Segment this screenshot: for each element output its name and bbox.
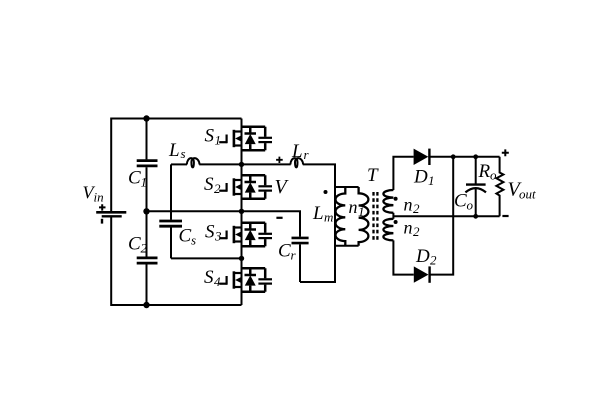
capacitor Co bottom lead bbox=[475, 189, 477, 217]
wire: Lr to primary loop top bbox=[303, 164, 335, 187]
battery minus tick bbox=[101, 219, 103, 224]
capacitor C2 bbox=[146, 211, 148, 256]
label Co bbox=[454, 191, 474, 213]
transformer core dashed lines bbox=[372, 192, 374, 241]
label S3 bbox=[205, 222, 222, 244]
label V bridge voltage bbox=[275, 176, 290, 198]
wire: left rail below battery to bottom rail bbox=[111, 217, 241, 305]
svg-text:L: L bbox=[312, 203, 324, 224]
transformer secondary winding n2 bottom bbox=[383, 219, 393, 241]
svg-text:n: n bbox=[349, 197, 358, 217]
svg-text:2: 2 bbox=[413, 224, 420, 239]
node: S1-S2 midpoint junction bbox=[239, 162, 244, 167]
svg-text:C: C bbox=[128, 234, 141, 255]
capacitor Co straight plate bbox=[466, 183, 486, 185]
svg-text:n: n bbox=[404, 195, 413, 215]
svg-text:S: S bbox=[204, 174, 214, 195]
svg-text:s: s bbox=[191, 233, 196, 248]
transistor S3 bbox=[219, 223, 272, 247]
node: D1-D2 cathode junction bbox=[451, 154, 456, 159]
label C1 bbox=[128, 168, 147, 190]
capacitor Co curved plate bbox=[465, 188, 486, 192]
wire: Cr bottom to primary loop bbox=[300, 246, 335, 282]
capacitor Co top lead bbox=[475, 157, 477, 184]
label T bbox=[367, 165, 379, 186]
svg-text:C: C bbox=[454, 191, 467, 212]
svg-text:3: 3 bbox=[214, 229, 222, 244]
transistor S4 bbox=[219, 268, 272, 292]
wire: middle rail from C1-C2 midpoint to S2-S3 midpoint bbox=[147, 210, 242, 212]
svg-text:s: s bbox=[181, 146, 186, 161]
svg-text:2: 2 bbox=[141, 241, 148, 256]
svg-text:C: C bbox=[128, 168, 141, 189]
node: C1-C2 midpoint junction bbox=[143, 208, 149, 214]
output plus sign bbox=[502, 149, 509, 156]
wire: Cs bottom to S3-S4 junction bbox=[171, 257, 242, 259]
label Vout bbox=[508, 179, 537, 202]
svg-text:V: V bbox=[275, 176, 290, 198]
label D2 bbox=[415, 246, 437, 268]
label n1 bbox=[349, 197, 365, 219]
wire: S1-S2 junction to Lr bbox=[242, 163, 291, 165]
svg-text:L: L bbox=[168, 140, 180, 161]
node: Co top junction bbox=[473, 154, 478, 159]
label n2 bottom bbox=[404, 218, 421, 240]
svg-text:4: 4 bbox=[214, 274, 221, 289]
svg-text:D: D bbox=[413, 167, 428, 188]
wire: D2 cathode up to plus rail bbox=[429, 157, 454, 275]
svg-text:1: 1 bbox=[428, 173, 435, 188]
label D1 bbox=[413, 167, 435, 189]
svg-text:S: S bbox=[205, 222, 215, 243]
wire: S2-S3 junction to Cr bbox=[242, 211, 301, 236]
wire: primary top stub bbox=[335, 186, 359, 188]
label S4 bbox=[204, 267, 221, 289]
svg-text:L: L bbox=[291, 141, 303, 162]
node: primary dot polarity bbox=[324, 190, 328, 194]
wire: primary bottom stub bbox=[335, 245, 359, 247]
svg-text:1: 1 bbox=[141, 175, 148, 190]
transformer secondary winding n2 top bbox=[383, 190, 393, 213]
svg-text:D: D bbox=[415, 246, 430, 267]
svg-text:R: R bbox=[478, 161, 491, 182]
diode D2 bbox=[414, 266, 429, 282]
inductor Ls coil bbox=[187, 158, 200, 167]
node: Co bottom junction bbox=[473, 214, 478, 219]
inductor Lm coil bbox=[335, 187, 345, 246]
label Cr bbox=[278, 241, 297, 263]
transistor S2 bbox=[219, 175, 272, 199]
svg-text:2: 2 bbox=[413, 201, 420, 216]
label Cs bbox=[179, 226, 197, 248]
svg-text:2: 2 bbox=[430, 253, 437, 268]
wire: Ls branch horizontal bbox=[171, 163, 187, 165]
capacitor Cr bbox=[292, 237, 309, 240]
svg-text:T: T bbox=[367, 165, 379, 186]
svg-text:C: C bbox=[278, 241, 291, 262]
wire: Ls coil to S1-S2 junction bbox=[199, 163, 241, 165]
label Ro bbox=[478, 161, 498, 183]
svg-text:o: o bbox=[490, 168, 497, 183]
svg-text:1: 1 bbox=[358, 204, 365, 219]
node: secondary bottom winding dot bbox=[394, 220, 398, 224]
svg-text:m: m bbox=[324, 210, 333, 225]
output minus sign bbox=[502, 215, 508, 217]
capacitor Cs bbox=[159, 220, 182, 223]
node: top rail / C1 junction bbox=[143, 115, 149, 121]
svg-text:o: o bbox=[467, 198, 474, 213]
svg-text:in: in bbox=[94, 190, 104, 205]
label Ls bbox=[168, 140, 186, 161]
svg-text:S: S bbox=[204, 267, 214, 288]
plus sign of bridge voltage V bbox=[276, 157, 283, 163]
battery plus sign bbox=[99, 204, 106, 210]
svg-text:out: out bbox=[519, 187, 536, 202]
wire: Ls riser down to Cs bbox=[170, 164, 172, 219]
secondary rail between windings bbox=[392, 213, 394, 219]
node: S3-S4 midpoint junction bbox=[239, 256, 244, 261]
resistor Ro bbox=[496, 157, 503, 217]
minus sign of bridge voltage V bbox=[276, 217, 282, 219]
node: C2 bottom / bottom rail junction bbox=[143, 302, 149, 308]
label Lm bbox=[312, 203, 333, 225]
wire: D1 cathode to output plus rail bbox=[428, 156, 499, 158]
wire: secondary bottom to D2 bbox=[393, 240, 413, 274]
battery Vin long plate bbox=[96, 211, 126, 214]
svg-text:S: S bbox=[205, 126, 215, 147]
node: secondary top winding dot bbox=[394, 197, 398, 201]
capacitor C1 bbox=[146, 119, 148, 160]
node: S2-S3 midpoint junction bbox=[239, 209, 244, 214]
inductor Lr coil bbox=[290, 158, 303, 167]
battery Vin short plate bbox=[102, 215, 122, 217]
label S1 bbox=[205, 126, 222, 148]
svg-text:2: 2 bbox=[214, 181, 221, 196]
wire: center tap return rail bbox=[393, 215, 499, 217]
svg-text:C: C bbox=[179, 226, 192, 247]
diode D1 bbox=[414, 149, 429, 165]
label C2 bbox=[128, 234, 148, 256]
svg-text:1: 1 bbox=[215, 133, 222, 148]
wire: top rail from input to S1 drain bbox=[111, 119, 241, 212]
wire: primary loop left rail bbox=[334, 164, 336, 282]
label Lr bbox=[291, 141, 310, 162]
transformer T primary winding n1 bbox=[359, 187, 369, 246]
transistor S1 bbox=[219, 127, 272, 151]
label n2 top bbox=[404, 195, 421, 217]
svg-text:n: n bbox=[404, 218, 413, 238]
label S2 bbox=[204, 174, 221, 196]
svg-text:r: r bbox=[304, 147, 310, 162]
label Vin bbox=[83, 183, 104, 205]
switch stack main vertical bbox=[241, 119, 243, 306]
wire: secondary top to D1 bbox=[393, 157, 413, 190]
svg-text:r: r bbox=[291, 248, 297, 263]
